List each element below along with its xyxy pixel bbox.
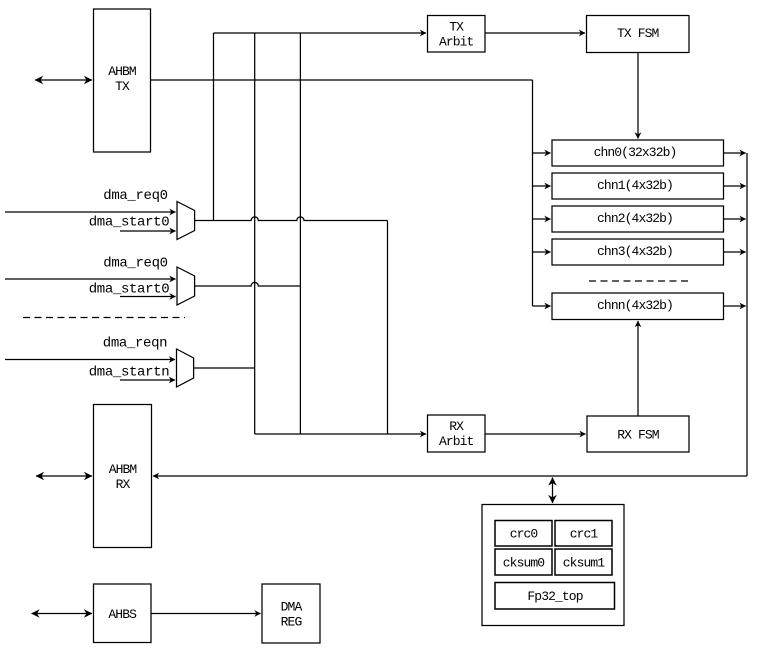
svg-text:REG: REG bbox=[281, 615, 302, 630]
block AHBM RX bbox=[94, 405, 152, 548]
wire chn2 read arrow bbox=[724, 218, 746, 220]
wire chn0 read arrow bbox=[724, 152, 746, 154]
block crc0 bbox=[495, 521, 552, 547]
svg-text:RX: RX bbox=[116, 477, 131, 492]
wire muxn vertical bus bbox=[254, 33, 256, 434]
wire channel read bus down right side bbox=[746, 153, 748, 476]
wire dma_req0 input 1 bbox=[5, 211, 176, 213]
block Fp32_top bbox=[495, 583, 615, 610]
wire request bus to TX Arbit bbox=[214, 32, 427, 34]
block cksum0 bbox=[495, 549, 552, 575]
wire muxn output bbox=[194, 367, 255, 369]
svg-text:AHBM: AHBM bbox=[108, 64, 136, 79]
svg-text:cksum0: cksum0 bbox=[503, 556, 545, 571]
wire mux1 request vertical up bbox=[213, 33, 215, 221]
block chn0 bbox=[552, 140, 724, 166]
block cksum1 bbox=[555, 549, 612, 575]
wire RX FSM up to chnn bbox=[637, 321, 639, 416]
wire chnn read arrow bbox=[724, 305, 746, 307]
wire dma_start0 input 1 bbox=[120, 230, 176, 232]
wire dma_start0 input 2 bbox=[120, 296, 176, 298]
wire TX Arbit to TX FSM bbox=[485, 32, 585, 34]
wire chn1 write arrow bbox=[533, 185, 551, 187]
svg-text:chnn(4x32b): chnn(4x32b) bbox=[597, 298, 673, 313]
svg-text:crc0: crc0 bbox=[510, 527, 538, 542]
svg-text:TX: TX bbox=[449, 20, 464, 35]
wire mux1 output with hops bbox=[195, 217, 388, 221]
block AHBS bbox=[94, 584, 152, 643]
svg-text:dma_reqn: dma_reqn bbox=[103, 336, 167, 352]
svg-text:cksum1: cksum1 bbox=[563, 556, 606, 571]
svg-text:dma_startn: dma_startn bbox=[89, 365, 170, 381]
svg-text:TX FSM: TX FSM bbox=[617, 26, 659, 41]
wire read bus to AHBM RX bbox=[153, 475, 747, 477]
svg-text:AHBM: AHBM bbox=[109, 462, 137, 477]
wire chn3 write arrow bbox=[533, 251, 551, 253]
wire TX FSM down to chn0 bbox=[637, 53, 639, 139]
svg-text:Arbit: Arbit bbox=[439, 35, 474, 50]
block chn3 bbox=[552, 239, 724, 265]
wire chn0 write arrow bbox=[533, 152, 551, 154]
wire AHBS to DMA REG bbox=[151, 613, 261, 615]
mux Mn bbox=[177, 349, 194, 387]
block crc1 bbox=[555, 521, 612, 547]
block DMA REG bbox=[262, 584, 320, 643]
svg-text:dma_start0: dma_start0 bbox=[89, 282, 170, 298]
block chn2 bbox=[552, 206, 724, 232]
block RX FSM bbox=[587, 416, 689, 452]
block RX Arbit bbox=[428, 415, 486, 452]
bidirectional arrow AHB slave bus bbox=[32, 613, 93, 615]
wire dma_req0 input 2 bbox=[5, 278, 176, 280]
wire vertical channel-write bus bbox=[532, 80, 534, 306]
wire AHBM TX output to channel bus bbox=[151, 79, 533, 81]
block AHBM TX bbox=[94, 9, 151, 152]
bidirectional arrow AHB bus (AHBM TX) bbox=[35, 79, 92, 81]
block checksum container bbox=[482, 505, 624, 626]
svg-text:dma_start0: dma_start0 bbox=[89, 215, 170, 231]
wire chn3 read arrow bbox=[724, 251, 746, 253]
svg-text:TX: TX bbox=[115, 79, 130, 94]
wire chn2 write arrow bbox=[533, 218, 551, 220]
svg-text:RX: RX bbox=[449, 419, 464, 434]
svg-text:chn2(4x32b): chn2(4x32b) bbox=[597, 211, 673, 226]
block TX FSM bbox=[587, 16, 690, 53]
svg-text:dma_req0: dma_req0 bbox=[103, 256, 167, 272]
wire dma_startn input bbox=[120, 379, 175, 381]
svg-text:Fp32_top: Fp32_top bbox=[527, 589, 582, 604]
svg-text:chn0(32x32b): chn0(32x32b) bbox=[594, 145, 677, 160]
block chnn bbox=[552, 293, 724, 320]
wire RX arbitration bus to RX Arbit bbox=[255, 433, 426, 435]
wire mux1 vertical down to RX arbitration bbox=[387, 221, 389, 435]
wire mux2 output with hop bbox=[195, 282, 301, 286]
block chn1 bbox=[552, 173, 724, 199]
wire chn1 read arrow bbox=[724, 185, 746, 187]
svg-text:crc1: crc1 bbox=[570, 527, 599, 542]
wire RX Arbit to RX FSM bbox=[485, 433, 586, 435]
svg-text:chn3(4x32b): chn3(4x32b) bbox=[597, 244, 673, 259]
dashed separator more channels bbox=[589, 280, 691, 282]
svg-text:Arbit: Arbit bbox=[439, 434, 474, 449]
mux M2 bbox=[177, 267, 195, 305]
block TX Arbit bbox=[428, 16, 486, 53]
dashed separator more dma groups bbox=[23, 317, 185, 319]
mux M1 bbox=[177, 202, 195, 240]
svg-text:AHBS: AHBS bbox=[108, 607, 137, 622]
svg-text:DMA: DMA bbox=[281, 600, 303, 615]
wire chnn write arrow bbox=[533, 305, 551, 307]
wire mux2 vertical bus bbox=[299, 33, 301, 434]
bidirectional arrow to checksum block bbox=[552, 478, 554, 504]
bidirectional arrow AHB bus (AHBM RX) bbox=[36, 475, 92, 477]
svg-text:dma_req0: dma_req0 bbox=[103, 188, 167, 204]
svg-text:RX FSM: RX FSM bbox=[617, 428, 659, 443]
wire dma_reqn input bbox=[5, 359, 175, 361]
svg-text:chn1(4x32b): chn1(4x32b) bbox=[597, 178, 673, 193]
